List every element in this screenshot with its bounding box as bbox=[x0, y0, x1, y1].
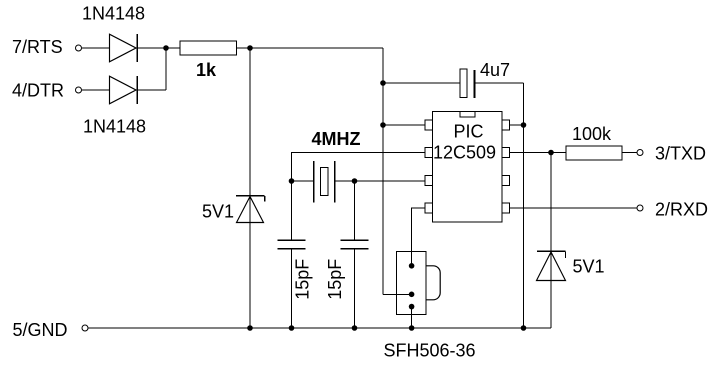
junction dot pin7/zener bbox=[548, 150, 554, 156]
wire crystal left lead bbox=[292, 180, 314, 182]
svg-text:1N4148: 1N4148 bbox=[82, 4, 145, 24]
node A junction dot bbox=[163, 45, 169, 51]
junction dot pin8 bbox=[521, 122, 527, 128]
svg-text:4/DTR: 4/DTR bbox=[12, 81, 64, 101]
svg-text:5V1: 5V1 bbox=[202, 202, 234, 222]
wire R1 to node B bbox=[237, 47, 384, 49]
receiver pin dot 2 bbox=[409, 292, 415, 298]
wire C3 lower lead bbox=[354, 249, 356, 328]
wire C2 15pF upper lead bbox=[291, 181, 293, 240]
terminal 2/RXD pad bbox=[637, 205, 643, 211]
wire DTR pad to D2 anode bbox=[82, 89, 110, 91]
pin 8 bbox=[502, 120, 510, 130]
terminal 4/DTR pad bbox=[76, 87, 82, 93]
junction dot VDD/C1 bbox=[380, 80, 386, 86]
junction dot gnd/C2 bbox=[289, 325, 295, 331]
zener ZD2 5V1 bbox=[537, 250, 566, 252]
wire VDD rail into receiver pin 2 bbox=[383, 293, 412, 295]
IR receiver lens bbox=[426, 266, 440, 300]
wire receiver pin 3 to ground bbox=[411, 307, 413, 328]
wire PIC pin 4 to IR receiver pin 1 bbox=[412, 208, 425, 266]
svg-text:12C509: 12C509 bbox=[433, 143, 496, 163]
terminal 7/RTS pad bbox=[76, 45, 82, 51]
wire PIC pin 5 to RXD pad bbox=[510, 207, 638, 209]
svg-text:PIC: PIC bbox=[454, 122, 484, 142]
pin 6 bbox=[502, 176, 510, 186]
pin 5 bbox=[502, 203, 510, 213]
wire R2 to TXD pad bbox=[622, 152, 637, 154]
capacitor C2 15pF bbox=[278, 239, 306, 241]
crystal Q1 4MHZ bbox=[313, 161, 315, 203]
wire C2 lower lead bbox=[291, 249, 293, 328]
svg-text:4MHZ: 4MHZ bbox=[312, 129, 361, 149]
wire VDD tap to C1 4u7 bbox=[383, 82, 460, 84]
wire node B down to zener ZD1 and ground bbox=[249, 48, 251, 328]
svg-text:3/TXD: 3/TXD bbox=[655, 144, 706, 164]
zener ZD1 5V1 bbox=[236, 195, 265, 197]
pin 3 bbox=[425, 176, 433, 186]
wire D1 cathode to node A bbox=[138, 47, 180, 49]
svg-text:5V1: 5V1 bbox=[573, 257, 605, 277]
svg-text:5/GND: 5/GND bbox=[13, 320, 68, 340]
receiver pin dot 1 bbox=[409, 263, 415, 269]
svg-text:4u7: 4u7 bbox=[480, 60, 510, 80]
junction dot gnd/drop line bbox=[521, 325, 527, 331]
resistor R1 1k bbox=[180, 41, 237, 55]
wire C1 to GND drop line bbox=[476, 82, 524, 84]
junction dot gnd/C3 bbox=[352, 325, 358, 331]
wire VDD rail vertical bbox=[382, 48, 384, 294]
capacitor C3 15pF bbox=[341, 239, 369, 241]
diode D2 1N4148 bbox=[110, 76, 137, 104]
terminal 3/TXD pad bbox=[637, 150, 643, 156]
svg-text:1N4148: 1N4148 bbox=[83, 117, 146, 137]
svg-text:2/RXD: 2/RXD bbox=[655, 200, 708, 220]
IC notch bbox=[460, 112, 475, 118]
junction dot gnd/receiver bbox=[409, 325, 415, 331]
op IC U1 PIC12C509 body bbox=[433, 112, 503, 223]
IR receiver U2 SFH506-36 body bbox=[397, 252, 426, 315]
svg-text:SFH506-36: SFH506-36 bbox=[384, 341, 476, 361]
pin 7 bbox=[502, 148, 510, 158]
wire zener ZD2 branch bbox=[550, 153, 552, 329]
pin 1 bbox=[425, 120, 433, 130]
resistor R2 100k bbox=[566, 146, 622, 160]
capacitor C1 4u7 bbox=[460, 69, 467, 98]
wire D2 cathode to node A bbox=[138, 89, 166, 91]
diode D1 1N4148 bbox=[110, 34, 137, 62]
wire crystal right lead to pin 3 bbox=[335, 180, 425, 182]
junction dot gnd/zener1 bbox=[247, 325, 253, 331]
wire ground rail bbox=[88, 327, 551, 329]
svg-text:100k: 100k bbox=[572, 124, 612, 144]
svg-text:1k: 1k bbox=[196, 60, 217, 80]
svg-text:15pF: 15pF bbox=[325, 259, 345, 300]
wire VDD to PIC pin 1 bbox=[383, 124, 425, 126]
wire C3 15pF upper lead bbox=[354, 181, 356, 240]
svg-text:15pF: 15pF bbox=[292, 259, 312, 300]
pin 4 bbox=[425, 203, 433, 213]
node B junction dot bbox=[247, 45, 253, 51]
wire PIC pin 8 to GND drop line bbox=[510, 124, 524, 126]
wire RTS pad to D1 anode bbox=[82, 47, 110, 49]
terminal 5/GND pad bbox=[82, 325, 88, 331]
junction dot VDD/pin1 bbox=[380, 122, 386, 128]
receiver pin dot 3 bbox=[409, 304, 415, 310]
pin 2 bbox=[425, 148, 433, 158]
wire crystal top loop to pin 2 bbox=[292, 153, 426, 182]
junction dot crystal left bbox=[289, 178, 295, 184]
wire PIC pin 7 to R2 bbox=[510, 152, 567, 154]
svg-text:7/RTS: 7/RTS bbox=[12, 37, 63, 57]
junction dot crystal right bbox=[352, 178, 358, 184]
